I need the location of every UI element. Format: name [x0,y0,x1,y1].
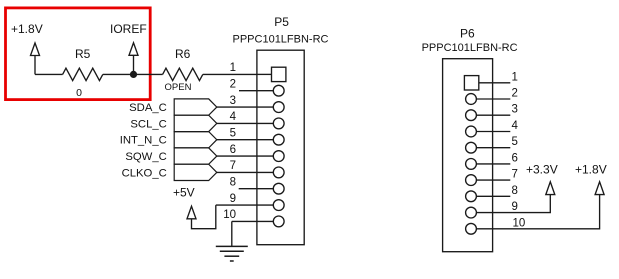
svg-text:IOREF: IOREF [110,22,147,36]
svg-text:0: 0 [76,87,82,99]
P5 pin 1 square [272,67,286,81]
wire SDA_C to pin 3 [217,106,273,108]
svg-text:8: 8 [230,177,236,189]
node junction [130,71,137,78]
P5 pin 2 stub wire [239,90,273,92]
svg-text:9: 9 [230,193,236,205]
P6 pin 9 circle [466,207,477,218]
svg-text:PPPC101LFBN-RC: PPPC101LFBN-RC [233,33,329,45]
P6 pin 1 square [464,76,478,90]
svg-text:8: 8 [512,185,518,197]
P5 pin 7 circle [273,167,284,178]
power +1.8V (left) [31,43,40,74]
P5 pin 3 circle [273,102,284,113]
svg-text:+1.8V: +1.8V [575,162,607,176]
port flag INT_N_C [174,132,217,148]
red highlight box [6,8,151,100]
svg-text:7: 7 [230,160,236,172]
svg-text:SQW_C: SQW_C [125,151,166,163]
wire CLKO_C to pin 7 [217,171,273,173]
svg-text:9: 9 [512,201,518,213]
power IOREF [129,43,138,75]
connector P5 [257,50,304,245]
P6 pin 7 circle [466,175,477,186]
svg-text:+1.8V: +1.8V [11,22,43,36]
power +1.8V (right) [595,182,604,195]
svg-text:P6: P6 [460,26,475,40]
svg-text:SDA_C: SDA_C [129,102,167,114]
svg-text:+5V: +5V [173,186,195,200]
P6 pin 8 wire [476,195,510,197]
power +3.3V [546,182,555,195]
svg-text:P5: P5 [274,15,289,29]
svg-text:10: 10 [513,217,526,229]
resistor R5 [63,68,103,80]
svg-text:CLKO_C: CLKO_C [122,167,167,179]
resistor R6 [163,68,203,80]
svg-text:PPPC101LFBN-RC: PPPC101LFBN-RC [422,42,518,54]
svg-text:6: 6 [512,152,518,164]
P5 pin 10 circle [273,216,284,227]
P6 pin 8 circle [466,191,477,202]
P6 pin 6 circle [466,159,477,170]
wire pin 10 to +1.8V [476,195,599,229]
P6 pin 7 wire [476,179,510,181]
P6 pin 2 circle [466,94,477,105]
port flag SCL_C [174,115,217,131]
svg-text:R6: R6 [175,47,191,61]
wire SQW_C to pin 6 [217,155,273,157]
P6 pin 5 wire [476,147,510,149]
wire pin10 to ground [231,221,233,246]
wire [103,73,134,75]
P5 pin 8 stub wire [239,188,274,190]
svg-text:INT_N_C: INT_N_C [120,135,167,147]
svg-text:1: 1 [230,62,236,74]
svg-text:SCL_C: SCL_C [130,118,166,130]
svg-text:4: 4 [512,120,519,132]
svg-text:R5: R5 [75,47,91,61]
P6 pin 3 wire [476,114,510,116]
port flag CLKO_C [174,164,217,180]
P6 pin 6 wire [476,163,510,165]
svg-text:+3.3V: +3.3V [526,162,558,176]
P6 pin 3 circle [466,110,477,121]
P5 pin 8 circle [273,183,284,194]
P6 pin 5 circle [466,142,477,153]
wire [134,73,163,75]
P5 pin 4 circle [273,118,284,129]
svg-text:3: 3 [230,95,236,107]
svg-text:5: 5 [230,128,236,140]
svg-text:3: 3 [512,104,518,116]
wire +5V to pin 9 [216,204,273,206]
P6 pin 4 wire [476,131,510,133]
P5 pin 9 circle [273,200,284,211]
P5 pin 5 circle [273,134,284,145]
P5 pin 2 circle [273,85,284,96]
wire [35,73,63,75]
wire ground to pin 10 [232,220,273,222]
svg-text:6: 6 [230,144,236,156]
ground [216,246,248,261]
svg-text:10: 10 [223,209,236,221]
P5 pin 1 wire inside [257,73,272,75]
svg-text:2: 2 [512,88,518,100]
P5 pin 6 circle [273,151,284,162]
port flag SQW_C [174,148,217,164]
wire pin 9 to +3.3V [476,195,550,213]
wire INT_N_C to pin 5 [217,139,273,141]
wire SCL_C to pin 4 [217,122,273,124]
svg-text:1: 1 [512,71,518,83]
P6 pin 10 circle [466,223,477,234]
wire to P5 pin 1 [203,73,257,75]
P6 pin 2 wire [476,98,510,100]
P6 pin 4 circle [466,126,477,137]
connector P6 [443,59,493,252]
P6 pin 1 wire [479,82,511,84]
svg-text:4: 4 [230,111,237,123]
port flag SDA_C [174,99,217,115]
power +5V [187,205,216,229]
svg-text:2: 2 [230,79,236,91]
svg-text:5: 5 [512,136,518,148]
svg-text:OPEN: OPEN [165,82,192,93]
svg-text:7: 7 [512,169,518,181]
